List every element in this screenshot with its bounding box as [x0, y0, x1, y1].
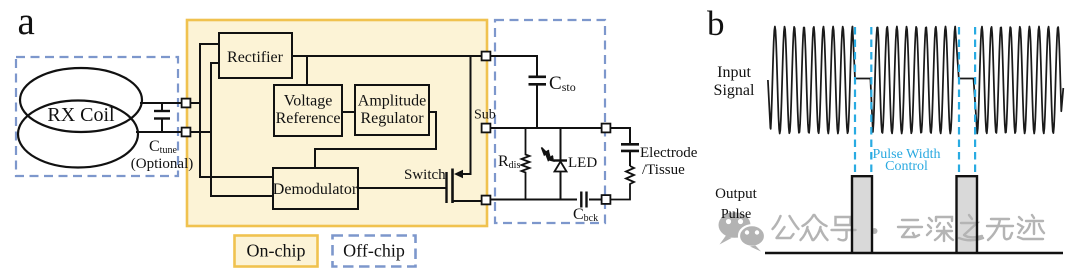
wire node1 to rectifier input 1 [190, 102, 200, 104]
resistor Rdis [522, 128, 530, 200]
on-chip block [187, 20, 487, 226]
wire coil bottom to node [136, 131, 184, 133]
svg-text:Voltage: Voltage [284, 93, 333, 110]
output pulse baseline [765, 252, 1063, 255]
legend on-chip [235, 236, 318, 267]
node Sub (on-chip edge) [482, 124, 491, 133]
capacitor Csto [529, 77, 547, 128]
demodulator block [273, 168, 358, 209]
wire railB to demodulator input 2 [210, 195, 273, 197]
wire railA to demodulator input 1 [199, 176, 273, 178]
output pulse 2 outline [957, 176, 978, 253]
svg-text:LED: LED [568, 155, 597, 171]
capacitor Cbck [581, 192, 586, 208]
off-chip dashed box (load network) [495, 20, 605, 223]
svg-text:Off-chip: Off-chip [343, 241, 405, 261]
node electrode bottom (off-chip edge) [602, 195, 611, 204]
svg-text:Electrode: Electrode [640, 145, 698, 161]
svg-text:(Optional): (Optional) [131, 156, 193, 172]
wire vertical rail A [199, 44, 201, 177]
drain arrowhead [454, 170, 463, 178]
wire to electrode [610, 128, 630, 143]
wire top node to Csto [490, 56, 537, 76]
svg-text:RX Coil: RX Coil [47, 104, 115, 126]
svg-text:Rectifier: Rectifier [227, 49, 284, 66]
voltage reference block [274, 85, 342, 136]
output pulse 1 fill [852, 176, 872, 253]
RX coil lower turn [18, 101, 138, 168]
wire demodulator to switch gate [358, 187, 446, 189]
svg-text:Switch: Switch [404, 167, 446, 183]
svg-text:a: a [18, 0, 35, 43]
legend off-chip [333, 236, 416, 267]
wire voltage reference to amplitude regulator [342, 111, 355, 113]
transistor switch (MOSFET) [447, 169, 487, 204]
off-chip dashed box (RX coil) [16, 57, 178, 176]
svg-text:On-chip: On-chip [247, 241, 306, 261]
output pulse 2 fill [957, 176, 978, 253]
watermark wechat icon [719, 212, 766, 251]
amplitude regulator block [355, 85, 429, 135]
node source (on-chip edge, bottom) [482, 196, 491, 205]
wire Sub rail [490, 127, 602, 129]
wire bottom rail right of Cbck [589, 199, 602, 201]
wire coil top to node [140, 102, 184, 104]
wire rectifier output rail [292, 55, 486, 57]
svg-text:Demodulator: Demodulator [273, 181, 358, 198]
output pulse 1 outline [852, 176, 872, 253]
wire railA to rectifier [199, 43, 219, 45]
svg-text:Pulse: Pulse [721, 207, 751, 222]
svg-text:Signal: Signal [714, 82, 755, 99]
svg-text:Input: Input [717, 64, 751, 81]
wire node2 to rail B [190, 131, 211, 133]
capacitor Ctune [154, 103, 170, 132]
svg-text:Output: Output [715, 186, 758, 202]
LED D1 [554, 128, 567, 200]
wire rail to voltage reference [306, 55, 308, 85]
wire rail down to switch drain [458, 56, 471, 174]
pulse width dashed marker 1b [870, 27, 872, 172]
svg-text:Reference: Reference [276, 110, 341, 127]
electrode resistance [610, 166, 634, 200]
pulse width dashed marker 2a [958, 27, 960, 172]
svg-text:b: b [707, 4, 725, 43]
wire vertical rail B [210, 63, 212, 196]
node electrode top (off-chip edge) [602, 124, 611, 133]
svg-text:Control: Control [885, 159, 928, 174]
wire amplitude regulator to demodulator top [315, 112, 436, 168]
node Vrect (top, on-chip edge) [482, 52, 491, 61]
node coil+ (on-chip left edge) [182, 99, 191, 108]
node coil- (on-chip left edge) [182, 128, 191, 137]
rectifier block [219, 33, 292, 78]
wire bottom rail [490, 199, 577, 201]
RX coil upper turn [20, 68, 142, 132]
pulse width dashed marker 1a [854, 27, 856, 172]
pulse width dashed marker 2b [974, 27, 976, 172]
LED light arrows [542, 148, 555, 163]
svg-text:Regulator: Regulator [360, 110, 424, 127]
watermark text [773, 215, 1045, 241]
input carrier waveform [768, 27, 1063, 134]
svg-text:Sub: Sub [474, 108, 496, 123]
svg-text:Amplitude: Amplitude [358, 93, 426, 110]
wire railB to rectifier [210, 62, 219, 64]
electrode capacitance [621, 144, 639, 166]
svg-text:/Tissue: /Tissue [642, 162, 685, 178]
